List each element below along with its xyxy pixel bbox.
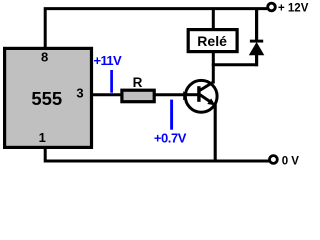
- +12V supply terminal: [268, 3, 276, 11]
- wire: collector up to relay/diode junction: [212, 52, 215, 84]
- transistor Q1 base arrow: [183, 91, 191, 100]
- resistor R body: [122, 90, 154, 102]
- svg-text:555: 555: [31, 88, 62, 109]
- wire: pin 1 drop and 0V bottom rail: [45, 148, 269, 161]
- wire: resistor R to transistor base: [155, 93, 200, 96]
- svg-text:Relé: Relé: [197, 33, 227, 49]
- transistor Q1 base bar: [197, 86, 200, 102]
- svg-text:0 V: 0 V: [282, 155, 300, 167]
- wire: diode anode down to junction: [255, 54, 258, 66]
- transistor Q1 circle: [185, 80, 217, 112]
- wire: relay top to +12V rail: [212, 9, 215, 30]
- transistor Q1 collector diagonal: [200, 82, 214, 90]
- node +0.7V pointer line: [170, 100, 173, 130]
- transistor Q1 base wire inside circle: [186, 93, 198, 96]
- transistor Q1 emitter arrowhead: [207, 98, 215, 105]
- node +11V pointer line: [110, 70, 113, 93]
- svg-text:R: R: [133, 75, 143, 90]
- wire: emitter down to 0V rail: [214, 104, 217, 163]
- transistor Q1 emitter diagonal: [200, 95, 213, 104]
- wire: pin 8 riser and +12V top rail: [45, 9, 267, 47]
- IC U1 555 body: [5, 48, 92, 147]
- 0V supply terminal: [270, 156, 278, 164]
- svg-text:3: 3: [76, 86, 83, 101]
- wire: diode cathode up to +12V rail: [255, 9, 258, 41]
- svg-text:+11V: +11V: [94, 53, 123, 68]
- diode D1 anode triangle: [249, 42, 264, 55]
- wire: collector junction to diode anode: [212, 63, 257, 66]
- svg-text:1: 1: [39, 130, 46, 145]
- svg-text:+ 12V: + 12V: [278, 2, 309, 14]
- svg-text:+0.7V: +0.7V: [154, 130, 187, 145]
- diode D1 cathode bar: [250, 40, 263, 43]
- relay RL1 body: [188, 30, 237, 52]
- wire: pin 3 to resistor R: [92, 93, 123, 96]
- svg-text:8: 8: [41, 50, 48, 65]
